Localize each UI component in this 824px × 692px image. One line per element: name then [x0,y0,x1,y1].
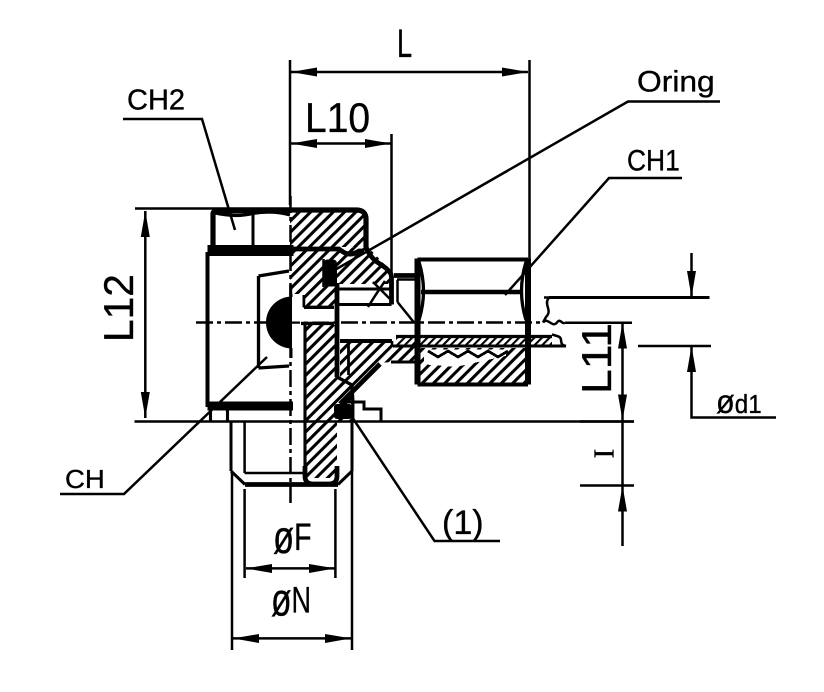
tube break wave bottom [552,335,566,347]
svg-text:øF: øF [273,511,311,563]
tube break wave top [543,298,549,323]
body bore chamfer diagonal [340,364,380,404]
body hex facet line [257,276,260,368]
label CH1 with leader [505,143,682,295]
threaded stud [135,422,635,485]
stud od left [230,422,233,472]
tube bottom id line [396,335,552,338]
body collar bottom edge [391,361,418,364]
svg-text:(1): (1) [442,504,484,542]
bore half annulus dark arc [266,297,292,349]
hatch head of hollow bolt [290,209,366,247]
slot top edge [304,306,334,309]
thread root left [243,422,246,474]
washer ring under body [211,409,228,422]
bolt cross passage slot left [290,294,334,322]
black washer band under bolt head [208,245,294,256]
hex cap of bolt head (view, CH2) [213,211,290,246]
label (1) with leader [350,414,500,542]
svg-text:CH: CH [65,465,105,494]
cone seat edge [373,282,390,299]
nut bottom edge [418,383,529,387]
hatch bolt wall to stud bottom [305,422,337,479]
label CH with leader [60,357,267,494]
tube top od line [549,296,710,299]
captive seal black square [334,404,352,419]
stud chamfer right [338,471,352,485]
tube bottom od line [393,344,566,347]
oring black section [324,260,338,287]
svg-text:I: I [589,449,621,459]
nut right face [525,259,531,385]
hatch body lower right wedge [340,341,415,404]
nut left face [415,259,421,385]
bolt bore rounded end [305,466,337,484]
label Oring with leader [333,64,720,271]
hatch bolt lower wall column [305,325,352,422]
svg-text:CH2: CH2 [127,85,185,117]
oring pocket left line [322,259,325,287]
nut chamfer arc left [419,262,424,320]
svg-text:CH1: CH1 [627,143,680,177]
svg-text:L10: L10 [305,93,370,141]
stud chamfer left [231,471,245,485]
slot bottom edge [301,322,334,325]
tube [393,298,710,347]
dimension oF [245,489,336,578]
tube axis solid segment [565,322,632,325]
bolt wall outer right [335,283,340,377]
centerline vertical bolt axis [289,196,292,503]
body step profile right of seal [340,402,381,422]
nut chamfer arc right [522,262,527,320]
dimension L11 [574,323,627,421]
bolt cross-hole slot outline [337,287,392,290]
nut top edge [418,258,529,262]
left body block (view, CH) [208,252,294,411]
swivel nut (CH1) [418,259,529,385]
bolt head outline [290,210,366,247]
hatch bell cone [337,245,392,284]
svg-text:L11: L11 [574,323,621,394]
bore wall stub below disc [290,348,293,358]
svg-text:øN: øN [271,574,311,625]
svg-text:Oring: Oring [637,64,715,98]
stud seat line [135,420,635,423]
thread root bottom [245,472,305,475]
dimension oN [232,471,352,650]
label CH2 with leader [123,85,235,231]
bore wall stub above disc [289,285,292,297]
bolt bore wall left [303,325,306,470]
body left edge [206,252,210,407]
hatch tube bottom wall band [396,338,552,346]
dimension od1 [544,253,776,420]
bell cone outline [366,247,392,305]
stud od right [351,422,354,472]
bolt flange step right [337,377,353,422]
body bore bottom edge [340,339,392,343]
body seat step vertical [391,341,394,346]
tube break wave center [543,321,565,324]
body stub before nut [394,276,415,323]
hatch bolt upper column with oring pocket [290,247,337,308]
head bottom edge with saddle [290,249,364,254]
slot wall tick [303,295,306,307]
dimension L12 [95,209,290,419]
nut hex flat line [421,290,522,294]
body bottom black band [208,402,294,411]
bell mouth inner curve [368,281,385,307]
svg-text:L: L [397,22,412,66]
dimension L10 [291,93,392,276]
centerline horizontal tube axis [196,321,543,324]
body bore wall vertical [347,341,350,375]
body facet bottom chamfer [259,366,290,368]
dimension I [580,422,634,547]
svg-text:L12: L12 [95,274,142,342]
body facet top chamfer [259,271,290,276]
hatch nut lower half [418,348,529,385]
nut thread zigzag [428,351,508,357]
stud bottom face [245,482,338,487]
dimension L [290,22,530,259]
white ferrule wedge inside nut [424,350,506,368]
